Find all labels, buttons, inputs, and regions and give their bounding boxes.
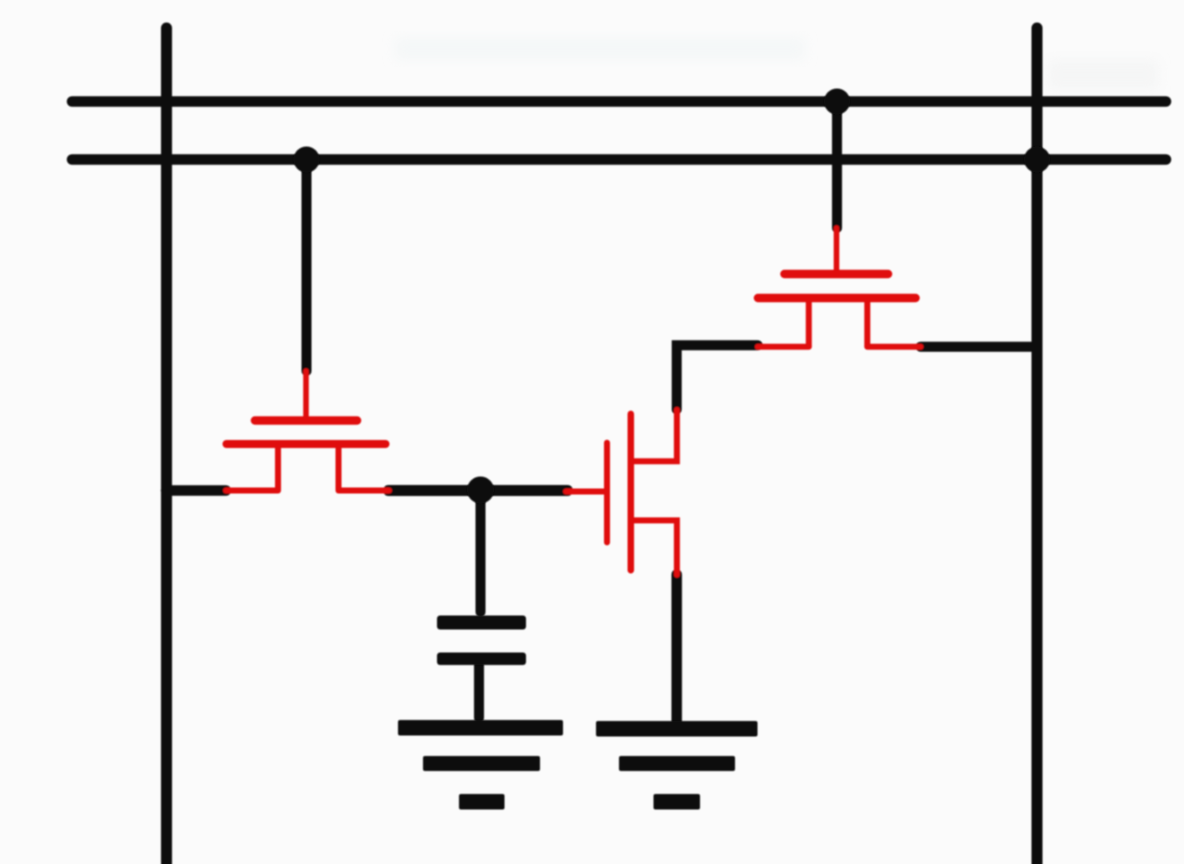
G2 bar 3 bbox=[654, 794, 701, 810]
wire: right vertical rail bbox=[1032, 28, 1043, 864]
G2 bar 1 bbox=[596, 721, 758, 737]
Q3 gate stub bbox=[834, 228, 840, 270]
Q2 gate bar bbox=[604, 443, 610, 543]
transistor Q2 (red, driver, sideways facing left) bbox=[566, 410, 677, 575]
wire: Q3 right lead to right rail bbox=[921, 342, 1038, 352]
wire: Q2 drain corner up to Q3 left lead bbox=[677, 345, 758, 409]
Q1 gate stub bbox=[303, 371, 309, 416]
wire: top horizontal bus line 1 bbox=[72, 96, 1166, 107]
ground G2 (below Q2 source) bbox=[596, 721, 758, 810]
Q1 gate bar bbox=[255, 416, 357, 425]
G1 bar 1 bbox=[398, 720, 563, 736]
G1 bar 2 bbox=[423, 756, 540, 771]
wire: capacitor C1 bottom plate to ground G1 bbox=[474, 665, 484, 718]
node: junction dot on line 2 left bbox=[294, 147, 320, 173]
Q3 left stub bbox=[806, 300, 812, 346]
wire: Q2 source down to ground G2 bbox=[671, 575, 682, 723]
smudge top right corner bbox=[1048, 60, 1158, 90]
transistor Q3 (red, top right, gate on top) bbox=[758, 228, 921, 347]
Q1 channel bar bbox=[227, 440, 386, 448]
node A: junction dot at Q1 drain / C1 / Q2 gate bbox=[467, 477, 494, 504]
Q2 drain stub up bbox=[634, 410, 677, 461]
transistor Q1 (red, switch, gate on top) bbox=[226, 371, 389, 491]
node: junction dot on line 1 right bbox=[824, 89, 850, 115]
Q1 drain stub bbox=[336, 446, 342, 489]
G2 bar 2 bbox=[619, 756, 735, 771]
Q2 channel bar bbox=[628, 414, 635, 570]
Q1 source lead red bbox=[226, 488, 278, 494]
G1 bar 3 bbox=[459, 794, 505, 810]
Q3 right lead red bbox=[867, 344, 920, 350]
wire: top horizontal bus line 2 bbox=[72, 154, 1166, 165]
wire: Q1 drain to node A bbox=[389, 485, 568, 496]
Q1 source stub bbox=[275, 446, 281, 489]
Q3 left lead red bbox=[758, 344, 809, 350]
Q3 channel bar bbox=[758, 294, 916, 303]
Q3 gate bar bbox=[785, 270, 889, 279]
wire: gate drop from line 2 to transistor Q1 bbox=[302, 160, 312, 371]
Q2 source stub down bbox=[634, 520, 677, 574]
wire: left vertical rail bbox=[161, 28, 172, 864]
capacitor C1 top plate bbox=[437, 616, 526, 630]
Q3 right stub bbox=[864, 300, 870, 346]
Q2 gate lead red bbox=[566, 489, 604, 495]
capacitor C1 bottom plate bbox=[437, 653, 526, 666]
wire: gate drop from line 1 to transistor Q3 bbox=[832, 102, 842, 228]
wire: node A drop to capacitor C1 bbox=[476, 491, 486, 612]
wire: Q1 source lead from left rail bbox=[166, 485, 226, 496]
Q1 drain lead red bbox=[339, 488, 390, 494]
node: junction dot line 2 and right rail bbox=[1024, 147, 1050, 173]
ground G1 (below capacitor) bbox=[398, 720, 563, 810]
smudge top center bbox=[395, 38, 805, 60]
